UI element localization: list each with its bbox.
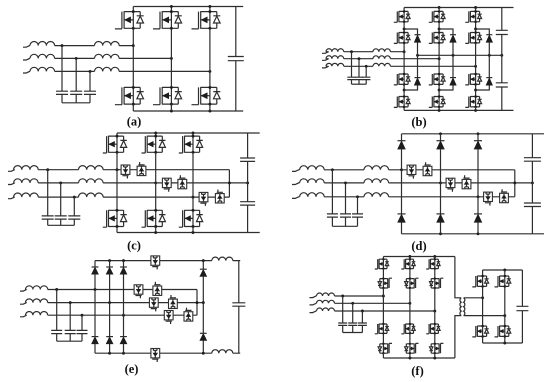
wire mid to Q4 drain (f) xyxy=(504,316,506,326)
wire DC- rail (c) xyxy=(117,232,260,234)
junction phase C leg (b) xyxy=(474,65,477,68)
wire Q1 drain (f) xyxy=(482,270,484,276)
junction neutral link (d) xyxy=(513,181,516,184)
diode D4 (e) xyxy=(92,337,99,344)
mosfet S13 matrix (f) xyxy=(375,323,389,335)
wire bridge DC+ rail (f) xyxy=(483,269,523,271)
wire D15 anode to neutral (b) xyxy=(417,42,419,55)
mosfet S2 (a) xyxy=(153,10,182,30)
wire phase B (a) xyxy=(23,58,171,60)
wire S34 to bottom rail (f) xyxy=(434,353,436,358)
junction phase A filter tap (f) xyxy=(341,295,344,298)
wire filter cap common rail (f) xyxy=(343,332,363,334)
wire S3 drain to DC+ (c) xyxy=(192,133,194,136)
wire phase B (b) xyxy=(322,59,439,61)
junction clamp upper tap leg 3 (b) xyxy=(474,28,477,31)
wire phase C (c) xyxy=(8,197,229,199)
wire S5 source to DC- (c) xyxy=(155,227,157,233)
wire S6 source to DC- (c) xyxy=(192,227,194,233)
junction DC- rail (e) xyxy=(122,352,125,355)
wire DC+ rail (c) xyxy=(117,132,260,134)
transformer T1 primary winding (f) xyxy=(460,298,461,316)
inductor LB2 (d) xyxy=(364,179,389,183)
inductor LB1 (d) xyxy=(300,179,325,183)
wire matrix bottom rail (f) xyxy=(383,357,455,359)
junction DC+ rail (b) xyxy=(438,6,441,9)
capacitor Cdc1 (c) xyxy=(240,158,255,161)
mosfet S3b bidirectional (c) xyxy=(215,189,224,203)
wire S24 to bottom rail (f) xyxy=(409,353,411,358)
wire DC- rail (a) xyxy=(133,110,243,112)
mosfet S33 (b) xyxy=(465,73,481,86)
wire Q4 source (f) xyxy=(504,336,506,343)
inductor LB1 (c) xyxy=(14,179,39,183)
junction secondary to left leg (f) xyxy=(481,296,484,299)
wire DC+ to Cdc1 (b) xyxy=(501,8,503,31)
wire phase A (c) xyxy=(8,170,229,172)
wire phase to D4 (d) xyxy=(401,170,403,214)
junction phase B filter tap (c) xyxy=(59,181,62,184)
mosfet S1 (c) xyxy=(103,135,127,154)
junction neutral (b) xyxy=(416,54,419,57)
inductor LC2 (d) xyxy=(364,193,389,197)
mosfet S3 (a) xyxy=(192,10,221,30)
wire leg3 top (f) xyxy=(434,257,436,260)
wire S1 source to phase (a) xyxy=(132,28,134,45)
diode D5 (e) xyxy=(106,337,113,344)
mosfet S2b bidirectional (c) xyxy=(178,175,187,189)
junction phase C leg (c) xyxy=(192,196,195,199)
wire Cdc1 to Cdc2 (c) xyxy=(247,161,249,201)
junction phase C leg (d) xyxy=(477,195,480,198)
wire S14 to bottom rail (f) xyxy=(382,353,384,358)
capacitor CfA (b) xyxy=(347,77,355,79)
capacitor Cdc2 (b) xyxy=(496,83,508,87)
inductor LC1 (d) xyxy=(300,193,325,197)
capacitor CfC (e) xyxy=(77,330,88,333)
wire DC+ rail (d) xyxy=(402,133,545,135)
wire phase to S4 drain (c) xyxy=(116,170,118,211)
junction DC- rail (c) xyxy=(192,231,195,234)
diode D4 (d) xyxy=(398,214,406,222)
junction bridge DC- (f) xyxy=(503,342,506,345)
diode D25 (b) xyxy=(450,35,456,43)
mosfet S21 (b) xyxy=(429,10,445,23)
inductor LB (f) xyxy=(317,300,335,303)
wire primary bottom to matrix (f) xyxy=(455,316,461,358)
wire phase to S33 (f) xyxy=(434,311,436,324)
wire Cdc to DC- (a) xyxy=(235,61,237,111)
mosfet S6 (a) xyxy=(192,86,221,106)
svg-text:(c): (c) xyxy=(127,239,141,253)
capacitor CfC (d) xyxy=(352,214,363,217)
wire D2 cathode to DC+ (d) xyxy=(440,134,442,141)
wire pair outputs link (d) xyxy=(514,170,516,197)
junction phase B leg (e) xyxy=(108,301,111,304)
junction phase A leg (a) xyxy=(132,44,135,47)
wire Q2 drain (f) xyxy=(504,270,506,276)
mosfet S6 (c) xyxy=(179,209,203,228)
mosfet Sy3b injection (e) xyxy=(184,308,193,322)
wire cap CB drop (a) xyxy=(75,58,77,91)
capacitor Cdc1 (b) xyxy=(496,30,508,34)
junction phase C leg (a) xyxy=(208,70,211,73)
wire S32 source to S33 drain (b) xyxy=(475,43,477,74)
inductor LA2 (a) xyxy=(95,42,120,46)
mosfet S34 (b) xyxy=(465,95,481,108)
mosfet S23 (b) xyxy=(429,73,445,86)
wire cap CB drop (f) xyxy=(352,303,354,323)
junction matrix top rail (f) xyxy=(433,255,436,258)
wire DC+ to Dp (e) xyxy=(202,261,204,270)
junction phase B filter tap (a) xyxy=(75,57,78,60)
capacitor CfB (f) xyxy=(348,323,357,325)
mosfet S11 (b) xyxy=(394,10,410,23)
wire D1 cathode to DC+ (d) xyxy=(401,134,403,141)
junction DC- rail (a) xyxy=(208,110,211,113)
wire cap CC drop (e) xyxy=(81,315,83,330)
wire S34 source to DC- (b) xyxy=(475,107,477,111)
wire S13-S14 link (b) xyxy=(403,84,405,96)
inductor LC1 (c) xyxy=(14,193,39,197)
mosfet Sn buck low-side (e) xyxy=(151,349,160,363)
wire Dn to DC- (e) xyxy=(202,341,204,354)
wire cap CC drop (b) xyxy=(365,66,367,77)
wire neutral to D26 (b) xyxy=(452,55,454,77)
wire D25 anode to neutral (b) xyxy=(452,42,454,55)
junction phase C filter tap (a) xyxy=(89,70,92,73)
junction clamp upper tap leg 2 (b) xyxy=(438,28,441,31)
wire filter cap common rail (a) xyxy=(62,102,90,104)
wire phase to D5 (e) xyxy=(109,303,111,337)
mosfet S1b bidirectional (d) xyxy=(423,162,432,176)
mosfet Sy1a injection (e) xyxy=(134,285,143,299)
wire phase A (e) xyxy=(20,290,197,292)
wire S2 source to phase (c) xyxy=(155,152,157,183)
wire S2 source to phase (a) xyxy=(170,28,172,58)
mosfet S2 (c) xyxy=(142,135,166,154)
wire D4 anode to DC- (d) xyxy=(401,222,403,234)
wire S11 drain to DC+ (b) xyxy=(403,8,405,12)
wire phase to S5 drain (a) xyxy=(170,58,172,87)
wire DC- rail (b) xyxy=(404,109,513,111)
wire cap CB to rail (e) xyxy=(69,334,71,342)
mosfet S3 (c) xyxy=(179,135,203,154)
inductor LC2 (b) xyxy=(373,63,390,66)
mosfet S3a bidirectional (c) xyxy=(199,192,208,206)
wire filter cap common rail (c) xyxy=(48,224,75,226)
diode D36 (b) xyxy=(486,78,492,86)
junction phase A filter tap (d) xyxy=(331,168,334,171)
inductor LB2 (a) xyxy=(95,54,120,58)
wire DC+ to Cdc1 (d) xyxy=(531,134,533,158)
transformer T1 secondary winding (f) xyxy=(464,298,465,316)
wire cap CA drop (c) xyxy=(47,170,49,216)
mosfet S32 matrix (f) xyxy=(429,277,443,289)
wire S12 to phase (f) xyxy=(382,288,384,296)
capacitor CfA (f) xyxy=(338,323,347,325)
junction injection center (e) xyxy=(202,301,205,304)
inductor LC (f) xyxy=(317,308,335,311)
mosfet S2b bidirectional (d) xyxy=(462,175,471,189)
mosfet S34 matrix (f) xyxy=(429,343,443,355)
inductor LA1 (b) xyxy=(326,49,344,52)
wire S23-S24 link (f) xyxy=(409,333,411,343)
junction phase C leg (e) xyxy=(122,314,125,317)
wire D1 cathode to DC+ (e) xyxy=(94,261,96,267)
wire D2 anode to phase (e) xyxy=(109,274,111,302)
mosfet S22 matrix (f) xyxy=(405,277,419,289)
junction DC+ freewheel (e) xyxy=(202,259,205,262)
mosfet Sp buck high-side (e) xyxy=(151,256,160,269)
mosfet S32 (b) xyxy=(465,31,481,44)
junction clamp upper tap leg 1 (b) xyxy=(403,28,406,31)
wire cap CC to rail (f) xyxy=(361,325,363,332)
wire S33-S34 link (f) xyxy=(434,333,436,343)
capacitor CfA (a) xyxy=(56,91,68,94)
wire phase A (b) xyxy=(322,52,404,54)
wire cap CB drop (b) xyxy=(358,59,360,77)
wire cap CB to rail (a) xyxy=(75,94,77,102)
mosfet S33 matrix (f) xyxy=(426,323,440,335)
mosfet S31 matrix (f) xyxy=(426,258,440,270)
diode D35 (b) xyxy=(486,35,492,43)
junction DC+ rail (a) xyxy=(170,5,173,8)
wire S33-S34 link (b) xyxy=(475,84,477,96)
wire phase C (a) xyxy=(23,71,210,73)
wire D3 anode to phase (d) xyxy=(477,149,479,197)
inductor LB1 (a) xyxy=(30,54,55,58)
diode Dn freewheel (e) xyxy=(200,333,207,340)
mosfet S14 matrix (f) xyxy=(378,343,392,355)
wire cap CA to rail (a) xyxy=(61,94,63,102)
wire S5 source to DC- (a) xyxy=(170,104,172,111)
wire D3 cathode to DC+ (d) xyxy=(477,134,479,141)
junction DC- rail (d) xyxy=(439,232,442,235)
wire cap CC to rail (e) xyxy=(81,334,83,342)
wire cap CA drop (b) xyxy=(351,52,353,77)
junction clamp lower tap leg 2 (b) xyxy=(438,89,441,92)
mosfet S22 (b) xyxy=(429,31,445,44)
wire neutral to D36 (b) xyxy=(488,55,490,77)
mosfet S3a bidirectional (d) xyxy=(484,192,493,206)
mosfet S2a bidirectional (d) xyxy=(446,178,455,192)
wire S24 source to DC- (b) xyxy=(438,107,440,111)
wire D6 anode to DC- (d) xyxy=(477,222,479,234)
junction phase A leg (d) xyxy=(400,168,403,171)
mosfet S5 (a) xyxy=(153,86,182,106)
wire phase to S23 (f) xyxy=(409,303,411,324)
diode D6 (e) xyxy=(120,337,127,344)
wire phase B / neutral (d) xyxy=(292,183,532,185)
wire phase to D6 (d) xyxy=(477,197,479,214)
wire leg2 top (f) xyxy=(409,257,411,260)
junction phase B leg (c) xyxy=(154,181,157,184)
capacitor Cdc2 (c) xyxy=(240,202,255,205)
wire filter cap common rail (b) xyxy=(352,83,367,85)
mosfet S12 (b) xyxy=(394,31,410,44)
wire DC+ rail (a) xyxy=(133,6,243,8)
junction neutral link (c) xyxy=(228,181,231,184)
wire DC+ to Cout (f) xyxy=(521,270,523,306)
mosfet S5 (c) xyxy=(142,209,166,228)
wire Cdc2 to DC- (c) xyxy=(247,205,249,232)
wire S2 drain to DC+ (a) xyxy=(170,7,172,12)
wire phase to D6 (e) xyxy=(123,315,125,336)
inductor LA (f) xyxy=(317,293,335,296)
wire phase to S4 drain (a) xyxy=(132,46,134,88)
wire cap CA to rail (e) xyxy=(56,334,58,342)
wire phase to S6 drain (c) xyxy=(192,197,194,210)
inductor LB2 (c) xyxy=(79,179,104,183)
wire phase to D4 (e) xyxy=(94,290,96,337)
wire cap CB to rail (d) xyxy=(345,217,347,226)
wire cap CC drop (d) xyxy=(357,197,359,214)
wire Cdc1 to neutral (b) xyxy=(501,35,503,56)
wire S32 to phase (f) xyxy=(434,288,436,311)
wire neutral rail (b) xyxy=(418,54,502,56)
wire cap CC to rail (c) xyxy=(73,219,75,225)
svg-text:(d): (d) xyxy=(411,239,426,253)
mosfet Q2 bridge (f) xyxy=(495,275,511,288)
wire clamp lower leg 2 (b) xyxy=(439,85,453,90)
wire S14 source to DC- (b) xyxy=(403,107,405,111)
svg-text:(a): (a) xyxy=(127,115,142,129)
diode D1 (e) xyxy=(92,267,99,274)
inductor LA2 (c) xyxy=(79,166,104,170)
junction phase C filter tap (e) xyxy=(81,314,84,317)
inductor LA1 (a) xyxy=(30,42,55,46)
wire DC+ to Cdc1 (c) xyxy=(247,133,249,158)
capacitor CfC (a) xyxy=(84,91,96,94)
wire cap CA drop (e) xyxy=(56,290,58,331)
wire D3 cathode to DC+ (e) xyxy=(123,261,125,267)
junction DC- rail (e) xyxy=(108,352,111,355)
wire Cdc2 to DC- (b) xyxy=(501,87,503,110)
wire injection outputs link (e) xyxy=(196,290,198,316)
wire clamp upper leg 2 (b) xyxy=(439,29,453,35)
mosfet S24 (b) xyxy=(429,95,445,108)
wire phase B (f) xyxy=(310,303,410,305)
mosfet S31 (b) xyxy=(465,10,481,23)
junction phase A leg (b) xyxy=(403,50,406,53)
wire cap CB to rail (f) xyxy=(352,325,354,332)
junction neutral (b) xyxy=(452,54,455,57)
inductor LA (e) xyxy=(26,286,48,290)
capacitor Cdc (a) xyxy=(228,57,244,61)
wire S1 drain to DC+ (c) xyxy=(116,133,118,136)
junction phase B filter tap (e) xyxy=(69,301,72,304)
wire phase to S13 (f) xyxy=(382,296,384,324)
diode D3 (e) xyxy=(120,267,127,274)
junction phase C filter tap (d) xyxy=(356,195,359,198)
mosfet S4 (c) xyxy=(103,209,127,228)
junction DC+ rail (e) xyxy=(122,259,125,262)
wire cap CB drop (d) xyxy=(345,183,347,214)
wire D2 anode to phase (d) xyxy=(440,149,442,183)
wire matrix top rail (f) xyxy=(383,256,455,258)
wire cap CC drop (c) xyxy=(73,197,75,216)
wire phase to S5 drain (c) xyxy=(155,183,157,210)
diode D2 (e) xyxy=(106,267,113,274)
junction phase B leg (a) xyxy=(170,57,173,60)
wire Cout to DC- (f) xyxy=(521,311,523,343)
junction phase C filter tap (b) xyxy=(365,65,368,68)
wire S22 to phase (f) xyxy=(409,288,411,303)
wire phase C (e) xyxy=(20,315,197,317)
junction DC- rail (a) xyxy=(170,110,173,113)
wire Cout to DC- (e) xyxy=(238,306,240,353)
wire Dp to center (e) xyxy=(202,276,204,302)
wire DC- rail (d) xyxy=(402,233,545,235)
junction phase B leg (b) xyxy=(438,57,441,60)
junction phase C filter tap (c) xyxy=(73,196,76,199)
mosfet S1a bidirectional (c) xyxy=(121,165,130,179)
svg-text:(b): (b) xyxy=(411,115,426,129)
wire clamp upper leg 1 (b) xyxy=(404,29,417,35)
diode D16 (b) xyxy=(414,78,420,86)
mosfet S4 (a) xyxy=(115,86,144,106)
wire cap CC to rail (d) xyxy=(357,217,359,226)
wire D35 anode to neutral (b) xyxy=(488,42,490,55)
mosfet Sy2b injection (e) xyxy=(169,295,178,309)
wire S3 source to phase (c) xyxy=(192,152,194,197)
mosfet S1a bidirectional (d) xyxy=(407,165,416,179)
wire center to Dn (e) xyxy=(202,303,204,334)
wire S23-S24 link (b) xyxy=(438,84,440,96)
junction matrix top rail (f) xyxy=(408,255,411,258)
junction phase B filter tap (d) xyxy=(344,181,347,184)
wire S21-S22 link (f) xyxy=(409,269,411,279)
wire phase A (a) xyxy=(23,46,133,48)
wire D6 to DC- (e) xyxy=(123,344,125,353)
capacitor CfB (d) xyxy=(340,214,351,217)
junction DC- rail (b) xyxy=(438,109,441,112)
diode Dp freewheel (e) xyxy=(200,269,207,276)
junction phase A filter tap (b) xyxy=(350,50,353,53)
junction DC+ rail (e) xyxy=(108,259,111,262)
capacitor CfB (c) xyxy=(55,216,67,219)
wire DC+ to Cdc (a) xyxy=(235,7,237,57)
junction phase A filter tap (e) xyxy=(55,288,58,291)
diode D1 (d) xyxy=(398,141,406,149)
mosfet S3b bidirectional (d) xyxy=(500,189,509,203)
wire DC+ rail (b) xyxy=(404,7,513,9)
capacitor CfB (a) xyxy=(70,91,82,94)
wire D3 anode to phase (e) xyxy=(123,274,125,315)
junction DC+ rail (c) xyxy=(154,132,157,135)
wire S21-S22 link (b) xyxy=(438,22,440,33)
wire S13-S14 link (f) xyxy=(382,333,384,343)
wire S2 drain to DC+ (c) xyxy=(155,133,157,136)
wire cap CB drop (c) xyxy=(60,183,62,216)
wire neutral to D16 (b) xyxy=(417,55,419,77)
capacitor CfC (c) xyxy=(68,216,80,219)
wire secondary top lead (f) xyxy=(464,297,483,299)
junction phase C filter tap (f) xyxy=(361,310,364,313)
wire filter cap common rail (d) xyxy=(332,225,357,227)
capacitor CfA (c) xyxy=(42,216,54,219)
wire phase A (f) xyxy=(310,296,384,298)
wire filter cap common rail (e) xyxy=(57,340,82,342)
wire DC+ rail (e) xyxy=(95,260,240,262)
junction phase A leg (c) xyxy=(116,168,119,171)
wire phase to S6 drain (a) xyxy=(209,71,211,87)
wire S12 source to S13 drain (b) xyxy=(403,43,405,74)
capacitor CfA (e) xyxy=(51,330,62,333)
mosfet S14 (b) xyxy=(394,95,410,108)
junction clamp lower tap leg 1 (b) xyxy=(403,89,406,92)
